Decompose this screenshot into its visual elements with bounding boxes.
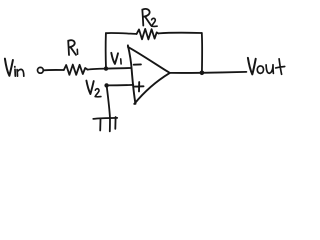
label R2 [142, 9, 157, 26]
wire output node to Vout [202, 71, 247, 74]
label V2 [86, 81, 101, 97]
label R1 [68, 40, 77, 55]
terminal Vin (open circle) [38, 67, 44, 73]
wire node V2 down to ground [107, 85, 110, 118]
wire R2 to right corner of feedback loop [158, 32, 201, 35]
minus sign (inverting input marker) [134, 63, 141, 65]
label Vout [248, 58, 285, 74]
wire feedback: node V1 up to top rail [105, 33, 107, 68]
wire top rail left to R2 [106, 32, 137, 35]
node V1 (junction dot) [104, 66, 108, 70]
resistor R2 [137, 29, 159, 40]
label V1 [111, 53, 121, 64]
wire node V1 to op-amp inverting input [106, 67, 131, 70]
wire op-amp non-inverting input to node V2 [107, 84, 134, 87]
op-amp U1 [128, 45, 136, 103]
ground [93, 117, 117, 131]
label Vin [5, 59, 24, 77]
wire op-amp output to node [170, 72, 202, 74]
wire right vertical down to output node [201, 33, 203, 73]
wire Vin terminal to R1 [44, 69, 64, 71]
node V2 (junction dot) [104, 83, 108, 87]
plus sign (non-inverting input marker) [135, 82, 144, 91]
wire R1 to node V1 [88, 69, 106, 70]
node output (junction dot) [200, 71, 205, 76]
resistor R1 [64, 65, 88, 75]
